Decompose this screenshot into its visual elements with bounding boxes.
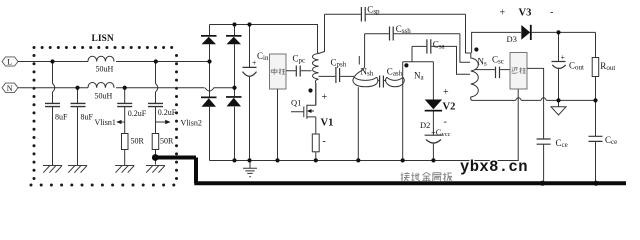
capacitor 8uF #1: [45, 103, 60, 106]
capacitor Csp and top link wire: [319, 14, 471, 53]
wire Na right edge / bottom leg: [402, 62, 404, 161]
svg-text:8uF: 8uF: [55, 112, 68, 121]
wire side-leg right link down to Cce#1: [527, 68, 544, 183]
inductor 50uH (L line): [88, 56, 114, 61]
diode D3 output wire: [472, 31, 596, 33]
Vlisn2 measurement arrow: [156, 121, 167, 123]
capacitor Cssh: [390, 27, 394, 41]
svg-text:8uF: 8uF: [81, 112, 94, 121]
svg-text:Vlisn1: Vlisn1: [95, 118, 116, 127]
grounded metal plate (thick line): [155, 158, 626, 184]
capacitor 8uF #2: [71, 103, 86, 106]
wire V1 box to rail: [315, 152, 317, 161]
resistor 50R #2: [152, 134, 159, 150]
junction dot on plate (Cce1): [540, 181, 545, 186]
svg-text:-: -: [444, 117, 447, 128]
capacitor Cout (polarized): [552, 62, 566, 69]
svg-text:+: +: [561, 53, 566, 62]
svg-text:0.2uF: 0.2uF: [158, 108, 177, 117]
capacitor Cce #1: [537, 139, 551, 144]
LISN boundary (dotted box): [30, 46, 179, 187]
svg-text:L: L: [7, 58, 12, 67]
earth symbol (open triangle): [551, 100, 566, 115]
transformer primary winding Np: [313, 54, 319, 84]
wire center-leg stem: [277, 89, 279, 161]
svg-text:V1: V1: [321, 117, 334, 128]
wire Cout column: [558, 32, 560, 100]
inductor 50uH (N line): [88, 83, 114, 88]
resistor 50R #1: [122, 134, 129, 150]
svg-text:Vlisn2: Vlisn2: [181, 118, 202, 127]
wire Na top link to D2 column: [403, 46, 434, 61]
capacitor Csc link wire: [475, 69, 511, 71]
wire 8uF#2 branch: [77, 88, 79, 166]
wire Cin column: [249, 25, 251, 161]
svg-text:N: N: [7, 84, 13, 93]
polarity dot Ns: [474, 47, 478, 51]
capacitor Cce #2: [589, 136, 603, 141]
capacitor Cssh link wire (left hook down to Nsh): [354, 34, 470, 77]
auxiliary winding Na: [385, 77, 404, 87]
bridge column B: [234, 25, 236, 161]
diode D bridge upper-left: [201, 35, 217, 44]
resistor/sensor box V1: [312, 134, 319, 152]
terminal L: [2, 57, 18, 67]
wire Nsh bottom leg: [357, 87, 359, 160]
polarity dot Na: [404, 63, 408, 67]
diode D3: [521, 25, 531, 40]
svg-text:ybx8.cn: ybx8.cn: [460, 158, 528, 176]
resistor Rout: [592, 58, 599, 77]
wire Rout column: [595, 32, 597, 183]
svg-text:50R: 50R: [160, 137, 174, 146]
wire L line: [18, 61, 210, 63]
diode D bridge lower-right: [226, 96, 242, 106]
ground (earth, 3-line) at rectifier return: [243, 161, 257, 177]
capacitor 0.2uF #1: [117, 103, 132, 106]
svg-text:LISN: LISN: [92, 34, 114, 44]
svg-text:+: +: [252, 59, 257, 68]
ground (LISN) under 50R#2: [146, 166, 165, 173]
capacitor Cpc: [296, 66, 300, 77]
wire bottom rail: [210, 89, 519, 161]
hop in N line: [205, 88, 214, 91]
svg-text:50R: 50R: [131, 137, 145, 146]
wire top rail: [210, 25, 319, 54]
diode D bridge upper-right: [226, 35, 242, 44]
svg-text:V2: V2: [443, 101, 456, 112]
wire D2 column: [432, 62, 434, 161]
shield winding Nsh: [353, 77, 378, 87]
capacitor Csa: [427, 39, 431, 53]
svg-text:D3: D3: [507, 34, 517, 44]
svg-text:Q1: Q1: [291, 97, 301, 107]
svg-text:50uH: 50uH: [95, 92, 113, 101]
junction dot on plate (Cce2): [593, 181, 598, 186]
wire N line (with hop over left bridge column): [18, 87, 235, 89]
core center-leg box (zhong zhu): [270, 54, 287, 89]
capacitor Cash with stubs: [378, 79, 387, 81]
wire 8uF#1 branch (hops over N line): [52, 62, 54, 166]
capacitor Csa link wire: [412, 46, 470, 74]
svg-text:50uH: 50uH: [96, 64, 114, 73]
svg-text:+: +: [500, 8, 506, 19]
svg-text:-: -: [323, 136, 326, 147]
secondary winding Ns with top lead: [471, 32, 479, 101]
wire output return (hops over two verticals): [472, 99, 597, 101]
capacitor Cvcc (polarized): [425, 135, 443, 143]
wire Np bottom to Q1 drain: [315, 83, 317, 105]
bridge column A: [209, 25, 211, 161]
ground (LISN) under 8uF#1: [43, 166, 62, 173]
svg-text:0.2uF: 0.2uF: [128, 109, 147, 118]
svg-text:V3: V3: [519, 8, 532, 19]
diode D2: [425, 100, 442, 112]
svg-text:-: -: [550, 7, 553, 18]
label grounded-metal-plate (CJK drawn as paths): [401, 172, 452, 181]
ground (LISN) under 8uF#2: [68, 166, 87, 173]
svg-text:+: +: [322, 92, 328, 103]
polarity dot Np: [308, 88, 312, 92]
wire 0.2uF#2 branch (hops over N line): [155, 62, 157, 165]
core side-leg box (bian zhu): [510, 53, 527, 90]
diode D bridge lower-left: [201, 97, 217, 107]
capacitor Cpsh link wire: [319, 75, 355, 77]
ground (LISN) under 50R#1: [115, 166, 134, 173]
floating stub near Nsh: [358, 56, 360, 65]
Vlisn1 measurement arrow: [121, 121, 125, 123]
wire 0.2uF#1 branch: [124, 88, 126, 166]
capacitor 0.2uF #2: [148, 103, 163, 106]
capacitor Cin (polarized): [243, 67, 257, 76]
svg-text:+: +: [443, 87, 449, 98]
capacitor Csc: [496, 67, 500, 79]
terminal N: [2, 83, 18, 93]
wire Cpc link: [286, 70, 312, 72]
svg-text:D2: D2: [420, 120, 430, 130]
capacitor Cpsh: [336, 67, 340, 83]
transistor Q1 (MOSFET): [291, 83, 316, 134]
